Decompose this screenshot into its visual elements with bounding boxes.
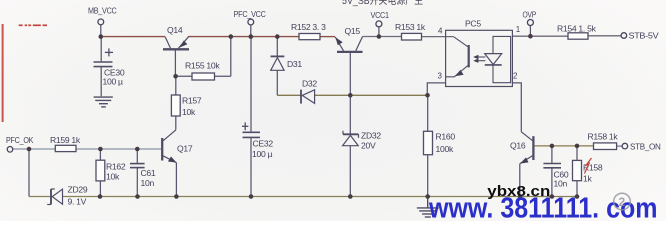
svg-text:3: 3 [438, 72, 443, 81]
svg-text:Q15: Q15 [345, 26, 361, 36]
svg-text:R159 1k: R159 1k [50, 135, 81, 145]
svg-text:CE32: CE32 [253, 138, 274, 148]
svg-text:R157: R157 [182, 95, 202, 105]
svg-text:1k: 1k [583, 173, 592, 183]
svg-text:ZD32: ZD32 [361, 131, 381, 141]
svg-text:10n: 10n [141, 178, 155, 188]
svg-text:D32: D32 [302, 79, 317, 89]
svg-text:MB_VCC: MB_VCC [88, 5, 117, 15]
svg-text:R155 10k: R155 10k [185, 61, 220, 71]
svg-text:20V: 20V [361, 140, 376, 150]
svg-text:R153 1k: R153 1k [395, 22, 426, 32]
svg-text:10n: 10n [554, 178, 568, 188]
svg-text:100 µ: 100 µ [252, 149, 273, 159]
svg-text:STB_ON: STB_ON [630, 141, 661, 151]
svg-text:PFC_VCC: PFC_VCC [234, 9, 266, 19]
svg-text:R158 1k: R158 1k [588, 131, 619, 141]
svg-text:OVP: OVP [523, 10, 537, 20]
svg-text:ZD29: ZD29 [68, 184, 88, 194]
svg-text:STB-5V: STB-5V [629, 31, 659, 41]
svg-text:PC5: PC5 [465, 18, 481, 28]
svg-text:D31: D31 [287, 59, 302, 69]
svg-text:9. 1V: 9. 1V [68, 196, 87, 206]
svg-text:VCC1: VCC1 [371, 10, 390, 20]
svg-text:Q16: Q16 [510, 140, 526, 150]
svg-text:R160: R160 [436, 132, 456, 142]
svg-text:Q17: Q17 [177, 144, 193, 154]
svg-text:5V_SB开关电源产生: 5V_SB开关电源产生 [342, 0, 423, 7]
svg-text:2: 2 [619, 195, 626, 209]
svg-text:R152 3. 3: R152 3. 3 [291, 22, 326, 32]
svg-text:10k: 10k [182, 107, 196, 117]
svg-text:100k: 100k [436, 144, 454, 154]
svg-text:R162: R162 [106, 161, 126, 171]
svg-text:R154 1. 5k: R154 1. 5k [557, 23, 597, 33]
svg-text:Q14: Q14 [167, 25, 183, 35]
svg-text:PFC_OK: PFC_OK [6, 135, 34, 145]
svg-text:10k: 10k [106, 171, 120, 181]
svg-text:C61: C61 [141, 168, 156, 178]
svg-text:4: 4 [438, 27, 443, 36]
svg-text:100 µ: 100 µ [103, 77, 124, 87]
svg-text:1: 1 [516, 25, 521, 34]
svg-text:2: 2 [513, 72, 518, 81]
